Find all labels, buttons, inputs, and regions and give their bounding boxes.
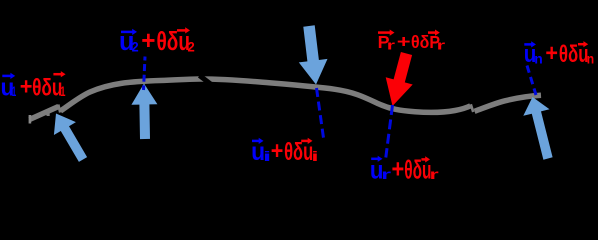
label u1: red variation term bbox=[20, 71, 66, 101]
label u2 + theta*delta*u2 (blue displacement term) bbox=[119, 28, 139, 56]
svg-text:1: 1 bbox=[12, 85, 16, 100]
svg-text:+: + bbox=[392, 156, 405, 183]
break jog 2 connector bbox=[471, 104, 473, 112]
svg-text:r: r bbox=[381, 167, 391, 183]
svg-text:r: r bbox=[387, 38, 396, 52]
beam segment 3 (right piece of gray curve) bbox=[475, 95, 542, 111]
beam segment 2 (main gray curve) bbox=[61, 79, 471, 112]
svg-text:r: r bbox=[430, 167, 440, 183]
arrow u1 (blue, up-left) bbox=[54, 114, 87, 162]
label u1 + theta*delta*u1 (blue displacement term) bbox=[1, 73, 17, 101]
arrow ui (blue, down) bbox=[299, 25, 328, 84]
beam left end cap bbox=[29, 115, 32, 124]
label ui + theta*delta*ui (blue displacement term) bbox=[251, 138, 271, 166]
svg-text:n: n bbox=[587, 51, 594, 67]
svg-text:+: + bbox=[271, 137, 284, 165]
beam segment 1 (left piece of gray curve) bbox=[30, 107, 59, 120]
dashed guide at node 2 bbox=[144, 57, 146, 91]
svg-text:n: n bbox=[534, 50, 543, 66]
svg-text:+: + bbox=[20, 72, 33, 99]
dashed guide at node i bbox=[317, 88, 324, 138]
arrow u2 (blue, up) bbox=[131, 84, 157, 140]
svg-text:i: i bbox=[311, 149, 318, 165]
label ur + theta*delta*ur (blue displacement term) bbox=[370, 156, 391, 185]
svg-text:2: 2 bbox=[188, 39, 195, 55]
small notch under beam segment 1 bbox=[47, 112, 50, 117]
svg-text:1: 1 bbox=[60, 84, 66, 99]
arrow un (blue, up-left) bbox=[523, 97, 552, 160]
svg-text:θδu: θδu bbox=[32, 75, 62, 101]
svg-text:+: + bbox=[397, 32, 411, 51]
dashed guide at node n bbox=[527, 66, 536, 96]
label ui: red variation term bbox=[271, 137, 319, 166]
svg-text:2: 2 bbox=[132, 39, 139, 55]
label ur: red variation term bbox=[392, 156, 440, 184]
break jog 1 connector bbox=[58, 105, 60, 113]
svg-text:+: + bbox=[141, 26, 155, 55]
svg-text:r: r bbox=[437, 38, 446, 52]
svg-text:+: + bbox=[545, 39, 558, 66]
black break tick on beam bbox=[200, 76, 213, 86]
label Pr + theta*delta*Pr (red force term) bbox=[378, 30, 446, 53]
dashed guide at node r bbox=[386, 105, 393, 158]
label un + theta*delta*un (blue displacement term) bbox=[524, 41, 543, 68]
label u2: red variation term bbox=[141, 26, 194, 56]
arrow Pr (red force, down-left) bbox=[386, 52, 413, 106]
label un: red variation term bbox=[545, 39, 594, 68]
